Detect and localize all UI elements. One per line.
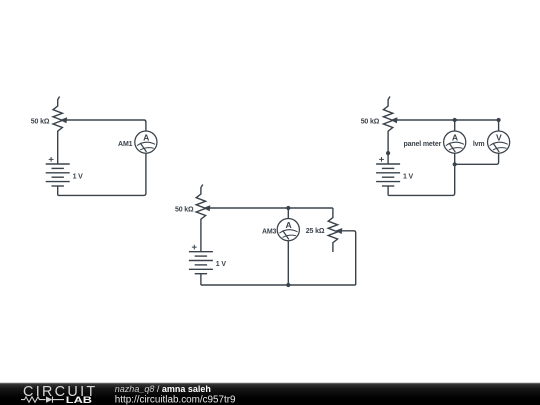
battery V1 negative stub <box>57 186 59 195</box>
voltmeter lvm <box>488 131 510 153</box>
junction node at AM3 top branch <box>286 206 290 210</box>
svg-text:50 kΩ: 50 kΩ <box>361 119 380 126</box>
ammeter AM1 <box>135 131 157 153</box>
potentiometer R3 50 kΩ <box>196 185 205 252</box>
svg-text:A: A <box>285 220 291 230</box>
battery V2 1 V <box>376 157 400 186</box>
wire down to panel meter top <box>454 120 456 131</box>
wire AM3 bottom <box>287 241 289 285</box>
potentiometer R1 50 kΩ <box>53 97 62 165</box>
svg-text:1 V: 1 V <box>73 173 84 180</box>
battery V3 negative stub <box>200 274 202 285</box>
junction node at lvm top branch <box>497 118 501 122</box>
wiper arrow of R3 <box>203 205 210 211</box>
bottom wire of circuit 3 <box>201 284 356 286</box>
node on R2-V2 wire <box>386 151 390 155</box>
svg-text:panel meter: panel meter <box>404 141 442 148</box>
svg-text:25 kΩ: 25 kΩ <box>306 228 325 235</box>
junction node at panel meter top branch <box>453 118 457 122</box>
svg-text:1 V: 1 V <box>403 174 414 181</box>
ammeter panel meter <box>444 131 466 153</box>
svg-text:1 V: 1 V <box>216 261 227 268</box>
svg-text:AM3: AM3 <box>262 229 277 236</box>
ammeter AM3 <box>277 219 299 241</box>
wire lvm bottom rail <box>455 153 499 164</box>
wire to battery V2 negative <box>388 164 455 195</box>
wire from R4 wiper to bottom <box>338 231 356 285</box>
svg-text:50 kΩ: 50 kΩ <box>31 119 50 126</box>
logo resistor zigzag and diode <box>21 397 64 403</box>
junction node at bottom wire <box>286 283 290 287</box>
wire down to lvm top <box>498 120 500 131</box>
wire AM1 bottom to battery negative <box>58 153 146 195</box>
battery V3 1 V <box>189 245 213 274</box>
svg-text:lvm: lvm <box>473 141 485 148</box>
svg-text:LAB: LAB <box>66 395 93 405</box>
potentiometer R4 25 kΩ <box>328 208 337 252</box>
wire from R3 wiper to R4 top <box>206 207 333 209</box>
wire down to AM3 top <box>287 208 289 219</box>
svg-text:http://circuitlab.com/c957tr9: http://circuitlab.com/c957tr9 <box>115 395 236 405</box>
wiper arrow of R4 <box>335 228 342 234</box>
wire panel meter bottom <box>454 153 456 164</box>
svg-text:nazha_q8 / amna saleh: nazha_q8 / amna saleh <box>115 384 211 394</box>
svg-text:50 kΩ: 50 kΩ <box>175 206 194 213</box>
svg-text:A: A <box>452 132 458 142</box>
wire from R2 wiper to meters <box>393 119 498 121</box>
wire from R1 wiper to AM1 top <box>63 120 146 131</box>
svg-text:AM1: AM1 <box>118 141 133 148</box>
battery V2 negative stub <box>387 186 389 195</box>
svg-text:V: V <box>496 132 502 142</box>
potentiometer R2 50 kΩ <box>383 97 392 165</box>
svg-text:A: A <box>143 132 149 142</box>
wiper arrow of R1 <box>60 117 67 123</box>
junction node meters bottom <box>453 162 457 166</box>
wiper arrow of R2 <box>390 117 397 123</box>
battery V1 1 V <box>46 157 70 186</box>
